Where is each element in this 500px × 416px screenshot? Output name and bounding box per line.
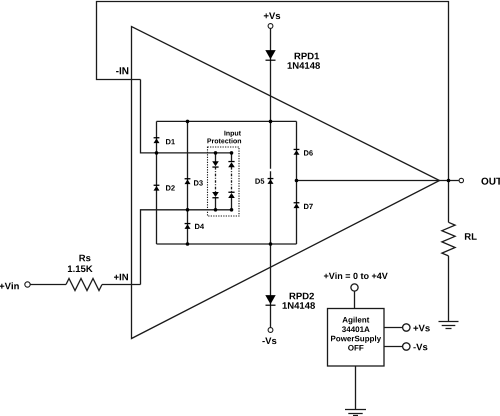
label RPD1	[295, 53, 320, 60]
diode RPD2	[265, 295, 275, 306]
junction supply rail / top rail	[269, 120, 273, 124]
diode D7	[294, 202, 300, 208]
wire: supply box +Vs stub	[384, 327, 403, 329]
wire: OUT node down to RL	[448, 181, 450, 223]
label Input	[224, 131, 241, 137]
label D4	[195, 224, 204, 229]
wire: network middle branch with D3 D4	[187, 121, 189, 244]
wire: inner protection right column	[231, 153, 233, 210]
label -Vs bottom	[262, 338, 276, 345]
label RPD2	[290, 293, 314, 300]
terminal +Vin	[25, 282, 30, 287]
label Rs	[79, 255, 90, 262]
diode D6	[294, 149, 300, 155]
wire: Rs to +IN	[102, 284, 141, 286]
wire: feedback loop -IN to OUT over the top	[97, 2, 449, 181]
inner protection diode left-bottom	[212, 192, 219, 198]
terminal supply +Vs	[403, 324, 410, 331]
wire: RL to ground	[448, 256, 450, 322]
label -IN	[116, 67, 128, 74]
ground below supply box	[345, 410, 366, 416]
label OFF	[348, 345, 363, 351]
junction inner left column top	[214, 151, 218, 155]
resistor Rs	[66, 279, 102, 291]
junction inner right column top	[230, 151, 234, 155]
resistor RL	[442, 222, 455, 256]
label RL	[465, 233, 477, 240]
diode RPD1	[265, 50, 275, 61]
junction middle branch / +IN line	[186, 208, 190, 212]
label Protection	[207, 138, 241, 143]
terminal +Vin=0..4V above supply box	[351, 284, 358, 291]
label +Vin = 0 to +4V	[324, 273, 388, 280]
label PowerSupply	[331, 336, 381, 344]
wire: +Vin to Rs	[30, 284, 66, 286]
op-amp U1	[132, 27, 440, 339]
label +Vs top	[264, 13, 280, 20]
label 1N4148 of RPD2	[283, 302, 315, 309]
wire: network left branch with D1 D2	[156, 121, 158, 244]
terminal -Vs	[268, 328, 273, 333]
inner protection diode left-top	[212, 161, 219, 167]
wire: terminal to supply box top	[354, 291, 356, 308]
wire: inner protection left column	[215, 153, 217, 210]
diode D2	[154, 185, 160, 191]
label 34401A	[342, 326, 370, 332]
wire: supply rail +Vs to -Vs through RPD1 D5 RPD2	[270, 29, 272, 328]
junction -IN / left branch	[155, 151, 159, 155]
diode D5	[268, 178, 274, 184]
wire: network top rail	[157, 120, 297, 122]
label 1N4148 of RPD1	[288, 62, 320, 69]
label +Vin	[0, 282, 19, 289]
label D7	[304, 204, 313, 209]
label D6	[304, 150, 313, 155]
junction middle branch / top rail	[186, 120, 190, 124]
inner protection diode right-bottom	[228, 192, 235, 198]
label Agilent	[342, 317, 369, 325]
terminal supply -Vs	[403, 343, 410, 350]
label D5	[255, 179, 264, 184]
label +Vs right	[413, 325, 429, 332]
label OUT	[481, 178, 500, 185]
ground for RL	[439, 322, 459, 329]
junction inner right column bottom	[230, 208, 234, 212]
wire: supply box to ground	[355, 366, 357, 410]
junction right branch / output	[295, 179, 299, 183]
wire: +IN branch up to protection network	[141, 210, 232, 285]
label D2	[166, 185, 175, 190]
wire: supply box -Vs stub	[384, 346, 403, 348]
diode D1	[154, 137, 160, 143]
label D1	[166, 139, 175, 144]
junction inner left column bottom	[214, 208, 218, 212]
wire: network right branch with D6 D7	[296, 121, 298, 244]
diode D3	[185, 178, 191, 184]
wire: network bottom rail	[157, 243, 297, 245]
power supply box Agilent 34401A	[328, 309, 385, 367]
junction middle branch / bottom rail	[186, 242, 190, 246]
diode D4	[185, 223, 191, 229]
dash-dot box: input protection	[208, 147, 240, 216]
label 1.15K	[68, 266, 93, 273]
terminal +Vs	[268, 24, 273, 29]
wire: -IN branch down to protection network	[141, 80, 232, 153]
junction OUT / feedback	[447, 179, 451, 183]
inner protection diode right-top	[228, 161, 235, 167]
terminal OUT	[459, 178, 463, 182]
wire: output node to OUT terminal	[297, 180, 459, 182]
junction supply rail / bottom rail	[269, 242, 273, 246]
label +IN	[114, 274, 128, 281]
label D3	[194, 180, 203, 185]
label -Vs right	[413, 344, 427, 351]
